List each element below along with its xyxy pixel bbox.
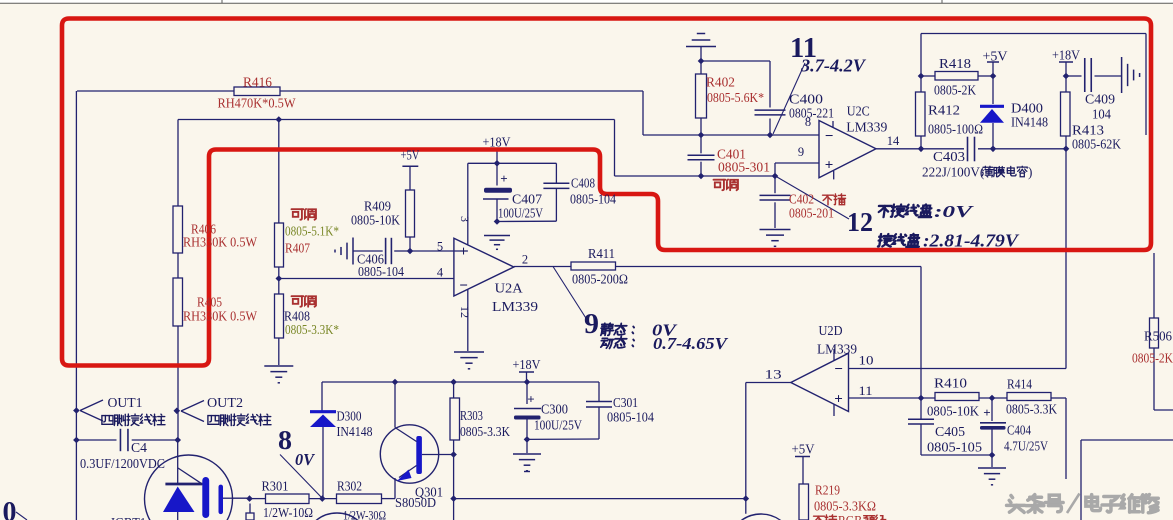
- svg-text:13: 13: [765, 368, 782, 382]
- svg-text:0805-5.6K*: 0805-5.6K*: [707, 90, 764, 105]
- svg-text:0805-104: 0805-104: [607, 410, 654, 425]
- svg-text:0V: 0V: [295, 450, 316, 469]
- svg-text:R407: R407: [285, 241, 310, 256]
- svg-text::0V: :0V: [934, 202, 974, 221]
- svg-text:RH330K 0.5W: RH330K 0.5W: [183, 309, 257, 324]
- svg-text:R410: R410: [934, 376, 967, 391]
- svg-text:0.7-4.65V: 0.7-4.65V: [653, 334, 729, 353]
- svg-text:+: +: [459, 244, 468, 260]
- svg-text:+: +: [825, 158, 834, 174]
- svg-text:IN4148: IN4148: [1011, 115, 1048, 130]
- svg-text:): ): [1028, 165, 1032, 180]
- svg-text:0805-3.3K*: 0805-3.3K*: [285, 322, 339, 337]
- svg-text:0805-2K: 0805-2K: [1132, 351, 1173, 366]
- svg-text:0: 0: [3, 496, 17, 520]
- svg-text:+18V: +18V: [1052, 48, 1080, 63]
- svg-text:3: 3: [458, 216, 472, 222]
- svg-text:4: 4: [437, 266, 444, 280]
- svg-text:100U/25V: 100U/25V: [498, 206, 543, 221]
- svg-text:OUT2: OUT2: [207, 395, 243, 410]
- svg-text:R303: R303: [460, 408, 483, 423]
- svg-text:C409: C409: [1085, 92, 1115, 107]
- svg-text:14: 14: [887, 134, 900, 148]
- svg-text:R413: R413: [1072, 123, 1104, 138]
- svg-text:C404: C404: [1007, 423, 1031, 438]
- svg-text:0805-104: 0805-104: [358, 264, 404, 279]
- svg-text:5: 5: [437, 240, 443, 254]
- svg-text:0805-62K: 0805-62K: [1072, 137, 1121, 152]
- svg-text:C400: C400: [789, 92, 823, 107]
- svg-text:+5V: +5V: [401, 148, 420, 163]
- svg-text:C408: C408: [571, 176, 595, 191]
- svg-text:RH470K*0.5W: RH470K*0.5W: [218, 96, 296, 111]
- svg-text:S8050D: S8050D: [395, 495, 436, 510]
- svg-text:0805-5.1K*: 0805-5.1K*: [285, 224, 339, 239]
- svg-text:C403: C403: [933, 149, 965, 164]
- svg-text:R301: R301: [262, 479, 289, 494]
- svg-text:2: 2: [522, 253, 528, 267]
- svg-text:10: 10: [859, 354, 874, 368]
- svg-text:R411: R411: [588, 246, 615, 261]
- svg-text:−: −: [825, 129, 834, 145]
- svg-text:0805-200Ω: 0805-200Ω: [572, 272, 628, 287]
- svg-text:LM339: LM339: [492, 299, 538, 314]
- svg-text:LM339: LM339: [846, 120, 887, 135]
- svg-text:0805-301: 0805-301: [718, 160, 770, 175]
- svg-text:3.7-4.2V: 3.7-4.2V: [800, 56, 867, 76]
- svg-text:R219: R219: [815, 483, 840, 498]
- svg-text:9: 9: [584, 308, 599, 340]
- svg-text:0805-201: 0805-201: [789, 206, 834, 221]
- svg-text:222J/100V(: 222J/100V(: [922, 165, 984, 180]
- svg-text:+: +: [834, 392, 843, 408]
- svg-text:0805-10K: 0805-10K: [351, 213, 400, 228]
- svg-text:IN4148: IN4148: [337, 424, 373, 439]
- svg-text:104: 104: [1092, 107, 1111, 122]
- svg-text:U2D: U2D: [819, 323, 843, 338]
- svg-text:−: −: [834, 362, 843, 378]
- svg-text:R414: R414: [1007, 377, 1032, 392]
- svg-text:D400: D400: [1011, 101, 1043, 116]
- svg-text:1/2W-10Ω: 1/2W-10Ω: [263, 505, 313, 520]
- svg-text:R405: R405: [197, 295, 222, 310]
- svg-text:R506: R506: [1144, 329, 1172, 344]
- svg-text:0.3UF/1200VDC: 0.3UF/1200VDC: [80, 456, 165, 471]
- svg-text:8: 8: [278, 425, 292, 455]
- svg-text:LM339: LM339: [817, 342, 857, 357]
- svg-text:C300: C300: [541, 402, 568, 417]
- svg-text:R409: R409: [364, 199, 391, 214]
- svg-text:+18V: +18V: [513, 357, 541, 372]
- svg-text:C407: C407: [512, 192, 542, 207]
- svg-text:R412: R412: [928, 103, 960, 118]
- svg-text:R416: R416: [243, 75, 272, 90]
- svg-text:R418: R418: [939, 56, 971, 71]
- svg-text:12: 12: [458, 306, 472, 318]
- svg-text:+5V: +5V: [983, 49, 1008, 64]
- svg-text:11: 11: [859, 384, 873, 398]
- svg-text:0805-100Ω: 0805-100Ω: [928, 122, 983, 137]
- svg-text:4.7U/25V: 4.7U/25V: [1004, 439, 1048, 454]
- svg-text:+18V: +18V: [483, 135, 511, 150]
- svg-text:OUT1: OUT1: [108, 395, 143, 410]
- svg-text:9: 9: [798, 145, 804, 159]
- svg-text:RH330K 0.5W: RH330K 0.5W: [183, 235, 257, 250]
- svg-text:D300: D300: [337, 409, 362, 424]
- svg-text:0805-104: 0805-104: [570, 192, 616, 207]
- svg-text:0805-2K: 0805-2K: [934, 83, 976, 98]
- svg-text:C405: C405: [935, 424, 965, 439]
- svg-text:0805-10K: 0805-10K: [927, 404, 979, 419]
- svg-text:U2A: U2A: [495, 281, 523, 296]
- svg-text:R402: R402: [706, 75, 735, 90]
- svg-text:0805-221: 0805-221: [789, 106, 834, 121]
- svg-text:−: −: [459, 278, 468, 294]
- svg-text:C4: C4: [131, 440, 147, 455]
- svg-text:0805-3.3KΩ: 0805-3.3KΩ: [814, 499, 876, 514]
- svg-text:1/2W-30Ω: 1/2W-30Ω: [343, 508, 386, 520]
- svg-text:12: 12: [847, 207, 873, 237]
- svg-text:RGB: RGB: [838, 514, 862, 520]
- svg-text:0805-3.3K: 0805-3.3K: [1006, 402, 1057, 417]
- svg-text:0805-3.3K: 0805-3.3K: [460, 424, 510, 439]
- svg-text:100U/25V: 100U/25V: [534, 418, 582, 433]
- svg-text:8: 8: [805, 115, 811, 129]
- svg-text:+5V: +5V: [792, 442, 815, 457]
- svg-text:IGBT1: IGBT1: [111, 515, 146, 520]
- svg-text:U2C: U2C: [847, 104, 870, 119]
- svg-text:0805-105: 0805-105: [927, 440, 982, 455]
- svg-text:+: +: [527, 392, 534, 407]
- svg-text:+: +: [983, 405, 990, 420]
- svg-text:+: +: [500, 171, 507, 186]
- svg-text::2.81-4.79V: :2.81-4.79V: [923, 231, 1019, 251]
- svg-text:C402: C402: [789, 192, 817, 207]
- svg-text:C301: C301: [613, 395, 638, 410]
- svg-text:R302: R302: [337, 479, 362, 494]
